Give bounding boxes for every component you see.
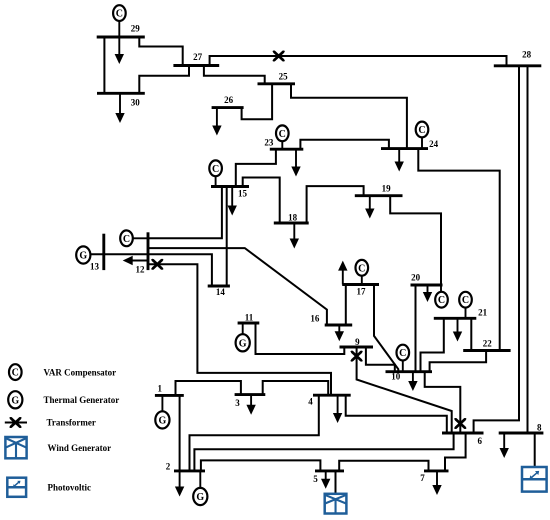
svg-text:C: C (212, 164, 219, 175)
svg-text:15: 15 (238, 189, 248, 199)
svg-text:16: 16 (310, 314, 320, 324)
svg-text:21: 21 (478, 308, 488, 318)
svg-text:28: 28 (522, 50, 532, 60)
svg-text:3: 3 (235, 398, 240, 408)
svg-text:30: 30 (131, 98, 141, 108)
svg-text:17: 17 (357, 287, 367, 297)
svg-text:12: 12 (136, 265, 146, 275)
svg-text:26: 26 (224, 95, 234, 105)
svg-text:C: C (279, 129, 286, 140)
svg-text:10: 10 (391, 372, 401, 382)
svg-text:7: 7 (420, 473, 425, 483)
svg-text:29: 29 (131, 24, 141, 34)
svg-text:VAR Compensator: VAR Compensator (44, 367, 117, 377)
svg-text:Transformer: Transformer (47, 418, 96, 428)
svg-text:G: G (79, 251, 87, 262)
svg-text:Thermal Generator: Thermal Generator (44, 395, 120, 405)
svg-text:13: 13 (90, 262, 100, 272)
svg-text:C: C (418, 125, 425, 136)
svg-text:25: 25 (279, 71, 289, 81)
svg-text:14: 14 (216, 287, 226, 297)
svg-text:Wind Generator: Wind Generator (48, 443, 112, 453)
svg-text:C: C (462, 295, 469, 306)
svg-text:C: C (438, 295, 445, 306)
svg-text:24: 24 (429, 139, 439, 149)
svg-text:6: 6 (478, 436, 483, 446)
svg-text:Photovoltic: Photovoltic (48, 483, 92, 493)
svg-text:19: 19 (382, 184, 392, 194)
svg-text:C: C (123, 234, 130, 245)
svg-text:G: G (11, 395, 19, 406)
svg-text:23: 23 (264, 138, 274, 148)
svg-text:2: 2 (166, 462, 171, 472)
svg-text:5: 5 (313, 474, 318, 484)
svg-text:20: 20 (411, 272, 421, 282)
svg-text:1: 1 (158, 384, 163, 394)
svg-text:C: C (116, 9, 123, 20)
svg-text:C: C (399, 348, 406, 359)
svg-text:C: C (358, 263, 365, 274)
svg-text:9: 9 (355, 337, 360, 347)
svg-text:G: G (159, 415, 167, 426)
svg-text:27: 27 (193, 52, 203, 62)
svg-text:G: G (196, 492, 204, 503)
svg-text:C: C (12, 368, 19, 379)
svg-text:18: 18 (288, 213, 298, 223)
svg-text:G: G (239, 338, 247, 349)
svg-text:11: 11 (245, 313, 254, 323)
svg-text:22: 22 (483, 338, 493, 348)
svg-text:8: 8 (537, 423, 542, 433)
svg-text:4: 4 (308, 396, 313, 406)
